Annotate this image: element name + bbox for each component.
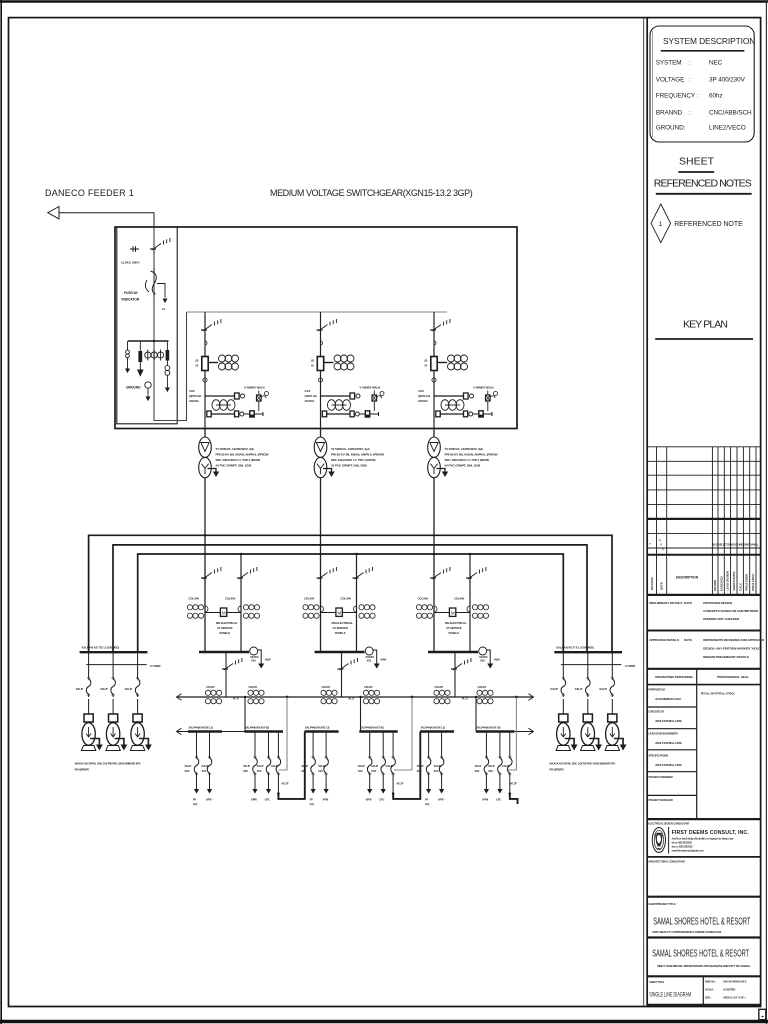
svg-text:PROJECT MANAGER: PROJECT MANAGER xyxy=(649,798,673,802)
subpanel 1L xyxy=(185,726,223,806)
wire switchgear internal bus xyxy=(187,311,448,313)
wire tap to panel 1 alt xyxy=(240,554,242,652)
label CT feeders xyxy=(206,685,487,689)
feeder cell 2 xyxy=(305,312,385,429)
svg-text:BRANND: BRANND xyxy=(656,110,683,117)
svg-text:CHECKED BY: CHECKED BY xyxy=(649,710,665,714)
svg-text:fax no 082 2222222: fax no 082 2222222 xyxy=(672,845,694,849)
node referenced note diamond xyxy=(651,204,671,243)
wire spare connector 1 xyxy=(278,697,287,770)
svg-text:REMAIN PRELIMINARY DETAILS: REMAIN PRELIMINARY DETAILS xyxy=(703,655,749,659)
wire spare connector 3 xyxy=(507,697,517,770)
svg-text:LINE2/VECO: LINE2/VECO xyxy=(709,125,746,132)
wire earth-switch branch xyxy=(157,284,165,298)
wire feed-through 1 to 2L xyxy=(278,732,304,799)
node bus junctions xyxy=(204,534,472,555)
svg-text:INDICATOR: INDICATOR xyxy=(122,298,140,302)
sheet title cell xyxy=(702,976,704,1005)
svg-text:#2 PVC GRNPT, ONL 3/5/8: #2 PVC GRNPT, ONL 3/5/8 xyxy=(445,464,481,468)
svg-text:#E 3F: #E 3F xyxy=(397,782,404,786)
svg-text:PRI 95 KV BIL KNAN, ANPN 8, (P: PRI 95 KV BIL KNAN, ANPN 8, (PR/OW xyxy=(331,453,384,457)
svg-text:SIZE :: SIZE : xyxy=(705,996,712,1000)
svg-text:REFERENCED NOTE: REFERENCED NOTE xyxy=(674,221,743,228)
svg-text:BRGY SAN MIGUEL BRAD PENAPLATA: BRGY SAN MIGUEL BRAD PENAPLATA (IGAD) IS… xyxy=(657,964,750,968)
subpanel 2R xyxy=(358,726,398,802)
svg-text:MEDIUM VOLTAGE SWITCHGEAR(XGN1: MEDIUM VOLTAGE SWITCHGEAR(XGN15-13.2 3GP… xyxy=(270,188,473,198)
svg-text:COL/P#: COL/P# xyxy=(322,685,331,689)
svg-text:CHECKED: CHECKED xyxy=(719,576,723,591)
svg-text:13.2KV, 20KA: 13.2KV, 20KA xyxy=(121,261,140,265)
wire feed-through 3 stub xyxy=(510,794,518,804)
svg-text:3P 400/230V: 3P 400/230V xyxy=(709,77,746,84)
svg-text:LEAD DESIGN ENGINEER: LEAD DESIGN ENGINEER xyxy=(649,732,678,736)
svg-text:DWG No:: DWG No: xyxy=(705,980,716,984)
fuse switch incoming xyxy=(151,271,157,294)
svg-text:SHEET TITLE: SHEET TITLE xyxy=(649,980,664,984)
svg-text:ARCHITECTURAL CONSULTANT: ARCHITECTURAL CONSULTANT xyxy=(648,860,685,864)
svg-text:REPRESENTS REVIEWED AND APPROV: REPRESENTS REVIEWED AND APPROVED xyxy=(703,638,765,642)
svg-text:CALC: CALC xyxy=(738,582,742,591)
svg-text:DATE: DATE xyxy=(684,638,692,642)
wire tap to panel 3 alt xyxy=(469,554,471,652)
title block left double line xyxy=(643,18,645,1007)
svg-text:COL/P#: COL/P# xyxy=(435,685,444,689)
page outer border top xyxy=(0,0,768,2)
svg-text:DATE: DATE xyxy=(660,582,664,590)
svg-text:LEAD DESIGN: LEAD DESIGN xyxy=(726,570,730,591)
svg-text:SAMAL SHORES HOTEL & RESORT: SAMAL SHORES HOTEL & RESORT xyxy=(653,917,750,928)
wire feed-through 2 to 3L xyxy=(393,732,420,799)
svg-text:COL/P#: COL/P# xyxy=(206,685,215,689)
wire T1 secondary drop xyxy=(204,429,206,653)
svg-text:PENDING NOT CHECKED: PENDING NOT CHECKED xyxy=(703,617,740,621)
svg-text:PEC No. 2474 PTR No. 1770/: PEC No. 2474 PTR No. 1770/CC xyxy=(701,692,736,696)
svg-text:SAMAL SHORES HOTEL & RESORT: SAMAL SHORES HOTEL & RESORT xyxy=(652,949,749,960)
svg-text:#E 3F: #E 3F xyxy=(510,782,517,786)
svg-text:SCALE :: SCALE : xyxy=(705,988,715,992)
node junction taps xyxy=(244,696,518,699)
svg-text:SEC 10kV/400V LY, TSP 4 (MCM): SEC 10kV/400V LY, TSP 4 (MCM) xyxy=(331,458,375,462)
svg-text:REFERENCED NOTES: REFERENCED NOTES xyxy=(654,178,752,190)
label T2 data xyxy=(331,447,384,468)
svg-text:JOSE P ESTRELLA PEE: JOSE P ESTRELLA PEE xyxy=(655,741,682,745)
svg-text:SYSTEM: SYSTEM xyxy=(656,60,682,67)
svg-text:REASON: REASON xyxy=(650,576,654,590)
wire spare connector 2 xyxy=(394,697,412,770)
svg-text:T2 500KVA, 13200/400V, 3ph: T2 500KVA, 13200/400V, 3ph xyxy=(331,447,370,451)
svg-text:BLDG/ELECT/SINGLE/LINE/DWG/SAM: BLDG/ELECT/SINGLE/LINE/DWG/SAMAL xyxy=(713,543,759,547)
panel group 1 xyxy=(187,567,271,697)
wire incoming main vertical xyxy=(154,227,187,421)
subpanel 3R xyxy=(475,726,515,802)
node arrow lower left xyxy=(177,728,182,735)
svg-text:FREQUENCY :: FREQUENCY : xyxy=(656,93,699,100)
svg-text:GROUND: GROUND xyxy=(126,386,141,390)
svg-text:DESCRIPTION: DESCRIPTION xyxy=(676,576,699,580)
svg-text:PREPARED BY: PREPARED BY xyxy=(649,688,666,692)
corner tick box xyxy=(759,1009,766,1019)
svg-text:#2 PVC GRNPT, ONL 3/5/8: #2 PVC GRNPT, ONL 3/5/8 xyxy=(216,464,252,468)
svg-text:JOSE P ESTRELLA PEE: JOSE P ESTRELLA PEE xyxy=(655,719,682,723)
panel group 2 xyxy=(303,567,387,697)
svg-text:CONCEPTS BASED ON ASSUMPTIONS: CONCEPTS BASED ON ASSUMPTIONS xyxy=(703,609,758,613)
node arrow upper right xyxy=(529,694,534,701)
svg-text:#L.X: #L.X xyxy=(233,697,239,701)
ground earth-switch arrow xyxy=(162,299,167,304)
svg-text:ORIGINATING PERSONNEL: ORIGINATING PERSONNEL xyxy=(655,675,694,679)
subpanel 1R xyxy=(243,726,283,802)
svg-text:#2 PVC GRNPT, ONL 3/5/8: #2 PVC GRNPT, ONL 3/5/8 xyxy=(331,464,367,468)
wire T2 secondary drop xyxy=(320,429,322,653)
svg-text:PRI 95 KV BIL KNAN, ANPN 8, (P: PRI 95 KV BIL KNAN, ANPN 8, (PR/OW xyxy=(445,453,498,457)
svg-text:XXX-XX-XXW-B-XX-X: XXX-XX-XXW-B-XX-X xyxy=(723,980,747,984)
ground electrode incoming xyxy=(145,382,151,388)
panel group 3 xyxy=(416,567,500,697)
wire distribution bus upper xyxy=(177,696,534,698)
bus tie ring B xyxy=(113,545,587,654)
svg-text:DESIGN. ANY PORTION MARKED "HO: DESIGN. ANY PORTION MARKED "HOLD" xyxy=(703,647,762,651)
svg-text:COL/P#: COL/P# xyxy=(249,685,258,689)
svg-text:KEY PLAN: KEY PLAN xyxy=(683,319,728,331)
transformer T3 xyxy=(428,437,449,478)
svg-text:VERIFY/APPR: VERIFY/APPR xyxy=(732,571,736,591)
feeder cell 3 xyxy=(418,312,498,429)
svg-text:PROFESSIONAL SEAL: PROFESSIONAL SEAL xyxy=(717,675,749,679)
svg-text:PROJ ARCH: PROJ ARCH xyxy=(751,573,755,591)
wire riser subpanel 3 xyxy=(475,697,477,732)
pump group right xyxy=(549,646,635,772)
page outer border bottom xyxy=(0,1020,768,1023)
revision table xyxy=(647,447,760,595)
svg-text:CNC/ABB/SCH: CNC/ABB/SCH xyxy=(709,110,752,117)
page outer border right xyxy=(765,0,767,1024)
svg-text:PROJ ENGR: PROJ ENGR xyxy=(745,573,749,591)
svg-text:#L.X: #L.X xyxy=(462,697,468,701)
svg-text:FIRST DEEMS CONSULT, INC.: FIRST DEEMS CONSULT, INC. xyxy=(672,830,750,836)
CT coils incoming (3) xyxy=(145,350,164,361)
svg-text:CMC REALTY CORPORATION / ANDRE: CMC REALTY CORPORATION / ANDRE GONZALES xyxy=(652,930,721,934)
svg-text:email firstdeems@gmail.com: email firstdeems@gmail.com xyxy=(672,849,705,853)
svg-text:DRAWN: DRAWN xyxy=(713,579,717,591)
svg-text:2nd floor bank bldg villa abri: 2nd floor bank bldg villa abrille cor le… xyxy=(672,837,734,841)
svg-text:SPECIFICATIONS: SPECIFICATIONS xyxy=(649,754,669,758)
system description rounded box xyxy=(650,26,754,142)
bus tie ring C xyxy=(138,554,564,654)
svg-text:CLIENT/PROJECT TITLE: CLIENT/PROJECT TITLE xyxy=(648,902,676,906)
transformer T1 xyxy=(199,437,220,478)
svg-text:GROUND:: GROUND: xyxy=(656,125,686,132)
wire distribution bus lower xyxy=(177,731,534,733)
svg-text:T3 500KVA, 13200/400V, 3ph: T3 500KVA, 13200/400V, 3ph xyxy=(445,447,484,451)
node arrow upper left xyxy=(177,694,182,701)
svg-text:ELECTRICAL DESIGN CONSULTANT: ELECTRICAL DESIGN CONSULTANT xyxy=(648,822,690,826)
svg-text:NEC: NEC xyxy=(709,60,723,67)
svg-text:COL/P#: COL/P# xyxy=(364,685,373,689)
svg-text:ARCH D ( 24" X 36" ): ARCH D ( 24" X 36" ) xyxy=(723,996,746,1000)
wire arrester bus in incoming cell xyxy=(128,340,169,342)
svg-text:#E 3F: #E 3F xyxy=(282,782,289,786)
svg-text:FUSS W/: FUSS W/ xyxy=(124,291,138,295)
svg-text:#L.X: #L.X xyxy=(349,697,355,701)
bus tie ring A xyxy=(89,535,612,653)
wire riser subpanel 1 xyxy=(244,697,246,732)
svg-text:JUAN HERMAN C DIAZ: JUAN HERMAN C DIAZ xyxy=(655,697,681,701)
wire incoming feeder to switchgear xyxy=(59,213,154,227)
transformer T2 xyxy=(314,437,335,478)
svg-text:T1 500KVA, 13200/400V, 3ph: T1 500KVA, 13200/400V, 3ph xyxy=(216,447,255,451)
feeder cell 1 xyxy=(189,312,269,429)
wire T3 secondary drop xyxy=(433,429,435,653)
arrester leg 2 fuse xyxy=(139,341,141,351)
label T3 data xyxy=(445,447,498,468)
svg-text:VOLTAGE: VOLTAGE xyxy=(656,77,685,84)
svg-text:JOSE P ESTRELLA PEE: JOSE P ESTRELLA PEE xyxy=(655,763,682,767)
svg-text:SEC 10kV/400V LY, TSP 4 (MCM): SEC 10kV/400V LY, TSP 4 (MCM) xyxy=(445,458,489,462)
signature cells xyxy=(649,688,683,803)
node incoming feeder arrow xyxy=(48,207,59,219)
svg-text:LS: LS xyxy=(162,307,165,311)
svg-text:SEC 10kV/400V LY, TSP 4 (MCM): SEC 10kV/400V LY, TSP 4 (MCM) xyxy=(216,458,260,462)
arrester leg 3 with PT xyxy=(166,341,168,350)
svg-text:PRELIMINARY DETAILS: PRELIMINARY DETAILS xyxy=(649,601,682,605)
svg-text:SHEET: SHEET xyxy=(679,156,715,168)
svg-text:tel no 082 2222222: tel no 082 2222222 xyxy=(672,841,693,845)
svg-text:PRI 95 KV BIL KNAN, ANPN 8, (P: PRI 95 KV BIL KNAN, ANPN 8, (PR/OW xyxy=(216,453,269,457)
svg-text:A: A xyxy=(659,538,661,542)
arrester leg 1 xyxy=(127,341,129,350)
subpanel 2L xyxy=(301,726,339,806)
svg-text:COL/P#: COL/P# xyxy=(478,685,487,689)
wire tap to panel 2 alt xyxy=(356,554,358,652)
CT cluster feeders on upper bus xyxy=(205,690,221,704)
svg-text:SINGLE LINE DIAGRAM: SINGLE LINE DIAGRAM xyxy=(649,992,691,999)
page outer border left xyxy=(0,0,2,1024)
svg-text:APPROVED DETAILS: APPROVED DETAILS xyxy=(649,638,679,642)
svg-text:DANECO FEEDER 1: DANECO FEEDER 1 xyxy=(45,188,134,198)
svg-text:PROJECT ENGINEER: PROJECT ENGINEER xyxy=(649,775,673,779)
disconnect incoming with earth ticks xyxy=(130,238,170,254)
svg-text:SYSTEM DESCRIPTION: SYSTEM DESCRIPTION xyxy=(663,36,755,46)
svg-text:PROPOSED DESIGN: PROPOSED DESIGN xyxy=(703,601,733,605)
wire riser subpanel 2 xyxy=(360,697,362,732)
incoming cell enclosure xyxy=(117,227,177,424)
svg-text:1: 1 xyxy=(659,221,663,228)
svg-text:60hz: 60hz xyxy=(709,93,722,100)
label T1 data xyxy=(216,447,269,468)
node arrow lower right xyxy=(529,728,534,735)
subpanel 3L xyxy=(417,726,455,806)
svg-text:DATE: DATE xyxy=(684,601,692,605)
switchgear enclosure xyxy=(115,227,517,429)
logo seal xyxy=(652,828,665,853)
svg-text:AS NOTED: AS NOTED xyxy=(723,988,735,992)
pump group left xyxy=(75,646,161,772)
label revision header xyxy=(650,570,755,591)
